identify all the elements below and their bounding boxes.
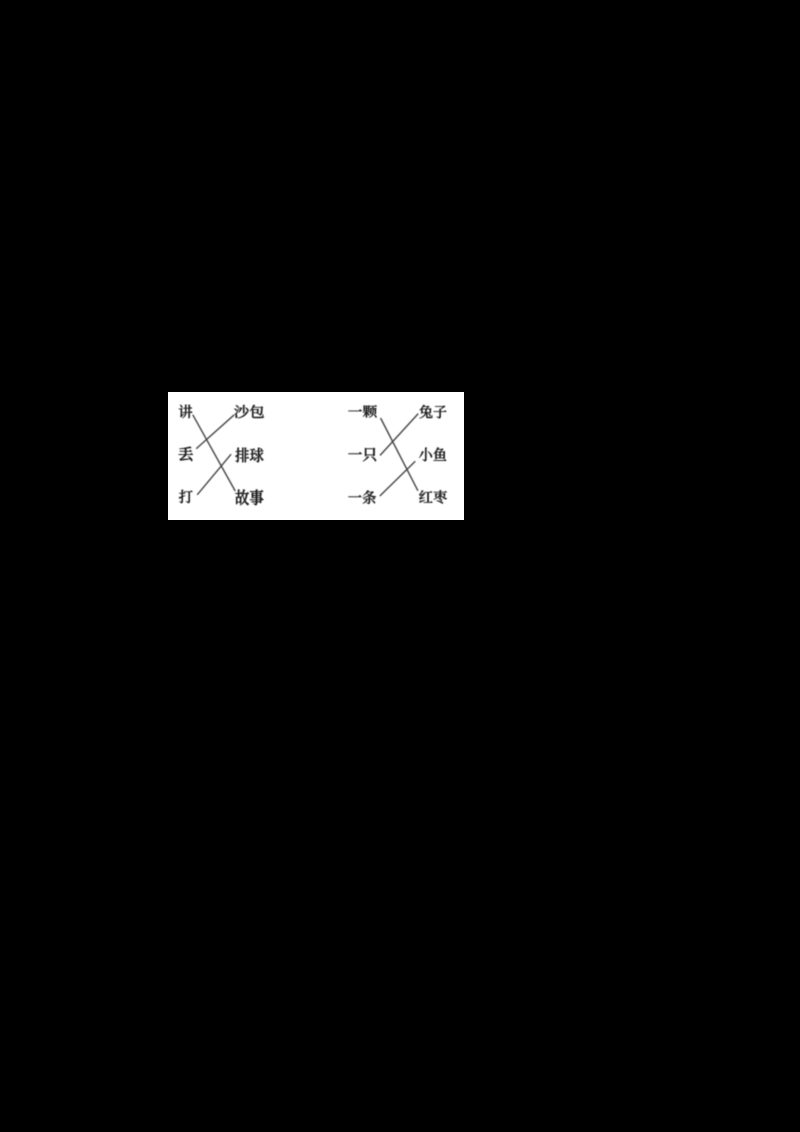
word 丢 (179, 447, 193, 461)
word 一颗 (348, 405, 377, 417)
connecting line 一条-小鱼 (380, 462, 415, 496)
word 沙包 (234, 405, 264, 418)
word 打 (179, 490, 193, 503)
word 排球 (235, 448, 263, 463)
connecting line 一只-兔子 (380, 414, 418, 455)
word 讲 (179, 405, 193, 418)
word 故事 (235, 489, 263, 505)
connecting line 一颗-红枣 (381, 419, 418, 491)
word 小鱼 (419, 447, 446, 461)
connecting line 丢-沙包 (197, 415, 234, 448)
word 红枣 (419, 490, 447, 503)
word 一条 (348, 490, 376, 504)
white worksheet panel (168, 392, 464, 520)
connecting line 讲-故事 (193, 415, 235, 490)
word 一只 (348, 448, 376, 462)
connecting line 打-排球 (198, 455, 231, 495)
word 兔子 (419, 405, 446, 419)
